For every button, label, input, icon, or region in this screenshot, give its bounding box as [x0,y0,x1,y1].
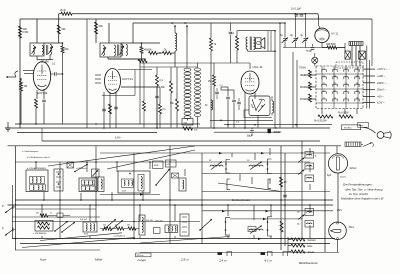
wire speaker down [337,239,339,252]
tube V1 ECH11 [33,62,50,95]
wire V1 cathode down [36,90,38,99]
svg-text:Behelfsantenne: Behelfsantenne [299,261,318,265]
wire series link [108,23,163,63]
svg-text:zu Typ: Anschl.: zu Typ: Anschl. [348,192,369,196]
junction y13 dots [295,13,307,15]
switch wiper W1b [155,169,170,186]
svg-text:Øy: Øy [297,212,300,214]
transformer T3 output [246,37,255,50]
tube V7 speaker circle [329,222,347,240]
wire x297 rail [296,60,298,128]
junction dots bottom [15,152,326,239]
wire x230 down [230,23,232,31]
capacitor C18 [237,98,241,110]
capacitor C5 [114,107,118,109]
svg-text:Mittel: Mittel [95,258,103,262]
capacitor C11 8uF [290,35,298,48]
connector block contacts [322,68,359,102]
svg-text:Die Fernbedienungen: Die Fernbedienungen [343,183,372,187]
wire bus1 [15,123,200,125]
coil L4 tall third [194,63,200,128]
coil T2c outside [126,45,127,56]
wire vx325 [324,146,326,252]
svg-text:b. KW-Antennen absch.: b. KW-Antennen absch. [27,156,50,159]
svg-text:Erde: Erde [308,245,314,248]
resistor R17 [231,31,239,63]
contact rail B1a [225,160,230,174]
switch wiper W2b [102,219,123,231]
wire x295 drop [294,15,296,37]
wire y23 end [284,22,286,24]
resistor R28 behelf [291,250,315,254]
svg-text:20mV ~: 20mV ~ [377,88,386,92]
component box K2 [359,51,366,59]
comb filter antenna [345,142,361,147]
svg-text:ECH 11: ECH 11 [37,91,48,95]
resistor chain R31 [100,225,139,238]
switch S1l box [305,175,314,182]
resistor R26 netz [291,238,316,242]
core T3 [250,37,251,51]
svg-text:50k0,5W: 50k0,5W [155,221,163,223]
coil group ZF1 [209,160,223,170]
wire bot y153 [100,152,330,154]
box W5901 [342,123,369,130]
svg-text:P: P [2,227,4,231]
wire vx170b [169,146,171,244]
wire comb drops [352,46,360,67]
terminal phono upper [2,204,16,213]
capacitor C9 50uF [247,128,254,138]
resistor R27 erde [291,244,313,248]
contact column S1a2 [54,169,63,191]
wire left AVC rail [19,19,21,128]
wire low y238 [12,238,335,240]
switch wiper W2a [54,221,75,233]
dial cord 4 [22,238,135,248]
coil T1b outside [49,45,54,56]
capacitor C14 Ausgl [306,44,314,53]
svg-text:über Typ. Ger. u. Netz-Anzug: über Typ. Ger. u. Netz-Anzug [345,188,383,192]
wire stubs row1b [232,148,310,190]
speaker SP1 cone [261,38,265,49]
label Kurz [40,258,47,262]
wire rectifier anode riser [317,14,320,20]
box S2d2 [154,221,163,234]
resistor R5 1M [20,78,28,124]
switch wiper W1a [74,164,88,172]
coil group ZF3 [248,226,263,234]
wire x305 drop [304,14,306,38]
connector comb strip [349,42,363,46]
box PB1 [153,161,164,168]
wire low y250 left [15,249,100,251]
label 3.4m [219,259,227,263]
resistor R16 7k [210,23,217,128]
svg-text:Schirm: Schirm [350,168,357,170]
label Ohm [337,210,342,212]
wire mid y217 [12,216,100,218]
svg-text:0,5W: 0,5W [23,31,29,34]
svg-text:Lange: Lange [138,258,147,262]
label abschalten [27,156,50,159]
dial pointer blobs [218,252,288,257]
svg-text:30cm: 30cm [349,227,355,229]
box S1b upper [92,169,100,177]
svg-text:Dr: Dr [205,104,208,107]
capacitor C12 4uF [300,35,308,48]
speaker SP1 driver [256,38,262,49]
svg-text:10PB: 10PB [154,165,160,167]
wire riser x109 [108,23,110,43]
label Behelfsantenne [299,261,318,265]
contact rail B2a [225,218,230,236]
wire anode riser x58 [58,14,60,43]
svg-text:UCL 11: UCL 11 [253,65,263,69]
resistor R10 series [163,49,172,54]
label Lange [138,258,147,262]
antenna input arrow [6,71,18,78]
wire y90 link [221,87,234,90]
terminal phono lower [2,227,16,236]
wire y194.5 [100,193,160,195]
coil T2b [120,44,125,56]
labels output voltages [363,67,388,105]
box PB2 [166,160,177,167]
svg-text:a.KW-absch.: a.KW-absch. [76,168,88,170]
wire mid y221 [12,221,200,223]
svg-text:2,8 m: 2,8 m [180,258,189,262]
contact rail B2b [267,217,272,236]
capacitor C17 anode [51,72,63,75]
box L2 base [182,119,193,126]
label 2.8m [180,258,189,262]
svg-text:+370 V ~: +370 V ~ [377,67,388,71]
svg-text:Netzant.: Netzant. [308,239,317,242]
wire whip link [361,144,363,146]
wire V2 anode row [121,86,160,88]
connector block X1 outline [316,66,363,109]
junction dots bottom2 [35,161,311,206]
wire low y243 [20,243,330,245]
component chain y215 [16,209,97,218]
lamp LA1 [312,57,318,63]
wire bot y141 [42,128,320,141]
resistor R13 0.3 [156,67,164,87]
wire V3 pins [245,92,255,128]
wire x372 rail [371,19,373,66]
coil T2 secondary [114,45,115,56]
svg-text:1M: 1M [24,84,28,88]
switch S2j box [297,209,314,216]
svg-text:Øy: Øy [297,224,300,226]
svg-text:2k: 2k [115,225,117,227]
label 4.1m [265,259,273,263]
wire vx202 [201,153,203,244]
switch S1e tall [179,178,186,191]
wire to osc coil [172,52,176,54]
switch wiper W2c [199,219,212,231]
tall box S1b2 [98,177,104,192]
contact rail B1c [227,179,230,190]
box scale lamp [136,253,152,257]
resistor R1 2k (top) [60,8,72,15]
svg-text:W 5901: W 5901 [344,128,352,130]
switch wiper W1k [298,170,305,175]
junction dots bus [19,120,297,129]
wire bot y145.8 [8,145,342,147]
wire lamp leads [314,53,316,66]
wire V5 cathode [322,43,327,48]
wire bus2 [5,127,330,129]
resistor R23 PyA2 [314,115,333,123]
label V6 [340,168,357,179]
dial cord 3 [218,183,280,191]
capacitor C10 8uF [280,35,288,48]
switch S1a box [26,170,48,192]
wire vx285 [284,153,286,246]
tube V5 rectifier UY11 [315,28,329,42]
switch wiper W2j [298,215,305,220]
svg-text:Ausgl.: Ausgl. [306,50,313,53]
wire riser x96 [95,19,97,43]
capacitor C7 [226,87,230,128]
wire T2 bottom row [108,57,146,59]
capacitor C4 [102,109,106,111]
capacitor C15 [283,195,287,197]
wire x280 rail [279,22,281,127]
coil T2 primary [102,46,107,56]
label Drehkondensator [232,199,251,202]
resistor R9 series [148,49,158,54]
vibrator U1 box [249,96,270,116]
svg-text:2k Ø: 2k Ø [60,8,65,12]
wire vx281 [280,146,282,250]
svg-text:50k: 50k [99,24,104,28]
wire T1 top link [44,42,63,44]
label 6.3V [115,137,122,140]
svg-text:UY 11: UY 11 [331,32,339,36]
tube V3 UCL11 [241,65,263,94]
svg-text:3,4 m: 3,4 m [219,259,227,263]
dial cord 5 [40,233,122,241]
wire T1 bottom [37,55,53,60]
switch S2f tall [180,214,189,236]
coil L2 tall [184,22,191,121]
capacitor C6 [229,32,233,63]
note line 1 [343,183,372,187]
svg-text:6µF: 6µF [327,174,332,177]
capacitor C8 [232,90,236,128]
svg-text:a. KW-ANSCH.: a. KW-ANSCH. [33,232,47,235]
svg-text:a. Skalenlampen: a. Skalenlampen [22,151,39,153]
wire bus segment y124r [224,124,332,126]
resistor R20 hell [300,70,312,78]
wire x293 rail [292,52,294,128]
resistor R21 dkl [300,82,312,90]
svg-text:Øhm: Øhm [337,210,342,212]
box Dr X [67,162,74,168]
switch S2k box [297,221,314,228]
svg-text:+6V ~: +6V ~ [377,95,384,99]
resistor R25 [280,177,288,187]
svg-text:50k: 50k [127,225,130,227]
wire V2 grid lines [95,75,101,83]
svg-text:4,1 m: 4,1 m [265,259,273,263]
wire stubs row2 [42,205,310,239]
svg-text:2x0,1µF: 2x0,1µF [80,219,88,221]
switch wiper W1j [298,158,305,163]
wire T3 down [248,50,276,52]
wire y63 link [140,63,250,67]
resistor R6 50k [61,43,69,56]
svg-text:Maßstäbe ohne Angabe in der LW: Maßstäbe ohne Angabe in der LW [341,197,384,201]
svg-text:30Ø 50W: 30Ø 50W [326,44,337,46]
wire x87 rail [86,19,88,128]
coil T1 primary [32,46,37,55]
core T2 [118,45,119,57]
svg-text:50/25V: 50/25V [274,132,282,134]
svg-text:UCH 21: UCH 21 [122,77,133,81]
wire bus segment y132r [214,131,280,133]
switch S1j box [305,152,317,159]
svg-text:50k: 50k [103,225,106,227]
wire bus segment y120 [210,119,273,121]
wire vx302 [301,141,303,239]
resistor R7 cathode [35,99,38,124]
core T1 [47,45,48,55]
dial cord 1 [48,146,195,166]
wire eye down [337,173,339,222]
svg-text:W₁: W₁ [171,22,174,25]
whip antenna arrow [363,142,373,147]
wire x157 down [156,87,158,128]
wire low y252 right [140,252,339,254]
switch S2e box [165,225,178,233]
svg-text:Summ.: Summ. [340,177,347,179]
wire vx337top [336,146,338,154]
svg-text:+290 ~: +290 ~ [377,74,386,78]
wire top supply bus [59,13,318,15]
svg-text:TONH.: TONH. [299,68,306,70]
tube V2 UCH21 [105,69,134,94]
wire mid y200 [15,199,333,201]
IF transformer T1 box [30,43,44,56]
svg-text:50k: 50k [36,213,39,215]
wire T2 top link [121,42,160,44]
resistor R14 50k [161,67,173,128]
wire x160 down [159,87,161,104]
dial cord 6 [140,237,230,244]
coil T1 secondary [42,46,43,55]
wire x285 drop [284,23,286,38]
coil L7 vibrator [272,96,274,116]
flow arrows [219,152,269,240]
resistor R4 50k [95,22,104,34]
wire block right bus [367,46,370,109]
switch S2d tall [139,215,153,235]
wire grid riser V1 [36,19,38,43]
resistor R3 40k [57,25,66,34]
resistor R2 50k [19,26,29,38]
svg-text:a.KW-Ansch.: a.KW-Ansch. [114,235,126,238]
wire chain left [288,237,291,252]
wire bus3 [17,132,157,134]
wire V5 top [319,19,320,28]
resistor R15 [159,104,167,128]
switch S1c box [118,171,150,193]
contact rail B1b [267,159,272,174]
wire stubs row1 [36,162,185,200]
wire mid y211 [202,211,333,219]
label 6uF [327,174,332,177]
label V5 [331,32,339,36]
resistor R25b [280,221,283,232]
dial cord 2 [107,150,195,169]
svg-text:Kurz: Kurz [40,258,47,262]
wire B+ collect [283,47,345,49]
wire bot y162 [15,161,310,163]
capacitor C3 cathode [42,89,46,124]
tube V6 magic eye [328,154,347,173]
label S2a [33,232,47,235]
svg-text:6,3V ~: 6,3V ~ [377,101,385,105]
label TONH [299,68,306,70]
switch S1b box [79,178,97,192]
svg-text:P: P [2,204,4,208]
note line 2 [345,188,383,192]
switch S2a box [35,221,53,232]
switch S1k box [305,163,314,169]
svg-text:50/70cm: 50/70cm [137,255,144,257]
wire block bottoms [322,109,357,115]
box ZF X [172,173,179,178]
wire R6 down [62,56,64,124]
resistor R30 osc [170,67,179,128]
capacitor C16 electrolytic [268,129,282,134]
wire vx134 [133,153,135,239]
svg-text:2x 0,1µF: 2x 0,1µF [291,7,302,11]
note line 4 [341,197,384,201]
svg-text:Drehkondensator: Drehkondensator [232,199,251,202]
wire y173.5 [202,174,330,192]
resistor R18 2M [208,63,223,128]
svg-text:6,3V~: 6,3V~ [115,137,122,140]
wire third bus [133,22,285,24]
svg-text:Py A 5/1W: Py A 5/1W [338,112,349,115]
wire top out transformer [237,31,275,52]
plug P1 mains [377,131,391,139]
connector block dividers [316,66,363,109]
resistor R24 PyA5 [338,112,353,119]
wire left rail x12 [11,185,13,239]
label S1a [27,167,46,170]
IF transformer T2 box [100,43,121,57]
wire x275 rail [274,30,276,128]
wire vx60 [59,162,61,239]
svg-text:W₂: W₂ [184,22,187,25]
label Skalenlampen [22,151,39,153]
connector block inner box [336,62,363,68]
capacitor 2x0.1uF pair [291,7,303,16]
label ZF [41,60,49,63]
svg-text:2M: 2M [208,80,211,83]
wire label links [304,75,316,99]
note line 3 [348,192,369,196]
wire vx96b [95,146,97,222]
label V7 [349,227,355,229]
resistor R11 base [183,127,199,132]
